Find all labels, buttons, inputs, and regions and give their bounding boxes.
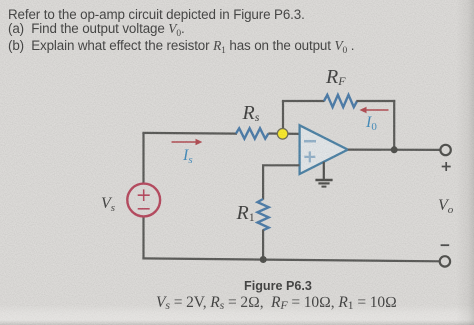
wire: bottom rail [142, 258, 439, 261]
output terminal top [440, 145, 450, 155]
op-amp minus symbol [304, 140, 316, 143]
wire: left rail bottom (source to bottom rail) [142, 217, 144, 260]
current arrow I0 [365, 109, 389, 111]
voltage source Vs [127, 184, 160, 217]
wire: vertical down to R1 [262, 165, 264, 199]
wire: left rail top (source to top wire) [142, 133, 144, 184]
output minus label [441, 244, 450, 246]
problem statement text [8, 7, 305, 22]
op-amp U1 [300, 125, 348, 174]
ground [323, 162, 325, 179]
wire: R1 to bottom rail [262, 230, 264, 260]
node A (yellow junction) [277, 129, 288, 140]
resistor R1 (vertical) [258, 199, 269, 230]
output plus label [442, 162, 451, 171]
label Rs [243, 103, 260, 123]
junction dot at output/feedback node [391, 146, 398, 153]
label Vs [101, 196, 115, 214]
junction dot at R1 bottom [260, 256, 267, 263]
output terminal bottom [440, 256, 450, 266]
wire: feedback left vertical [282, 101, 284, 134]
resistor Rs [236, 128, 268, 138]
wire: non-inverting input horizontal [262, 164, 300, 166]
resistor RF [324, 95, 357, 107]
label I0 [366, 115, 377, 133]
current arrow Is [172, 141, 197, 143]
caption title [0, 279, 474, 293]
label RF [326, 67, 346, 87]
caption values [156, 295, 397, 311]
label Is [183, 148, 193, 166]
wire: feedback top right horizontal [356, 100, 395, 102]
op-amp plus symbol [304, 151, 315, 162]
label Vo [438, 198, 453, 216]
label R1 [237, 203, 255, 223]
wire: Rs to op-amp inverting input [268, 132, 299, 135]
wire: op-amp output [348, 149, 440, 151]
wire: feedback top left horizontal [282, 100, 325, 102]
wire: top horizontal from left rail to Rs [142, 132, 237, 135]
wire: feedback right vertical down to output [393, 100, 395, 150]
